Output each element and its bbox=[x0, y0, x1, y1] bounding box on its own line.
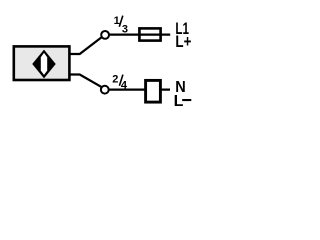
sensor box bbox=[14, 46, 70, 80]
terminal 2/4 bbox=[101, 86, 109, 94]
wire bbox=[110, 33, 171, 35]
svg-text:L+: L+ bbox=[175, 33, 191, 51]
svg-text:2: 2 bbox=[112, 73, 118, 85]
wire bbox=[109, 88, 170, 90]
sensor symbol diamond bbox=[33, 50, 55, 77]
terminal 1/3 bbox=[101, 31, 109, 39]
svg-text:4: 4 bbox=[121, 80, 128, 92]
fuse F1 bbox=[139, 28, 160, 40]
svg-text:1: 1 bbox=[114, 15, 120, 27]
sensor symbol lens bbox=[41, 53, 47, 75]
wire bbox=[70, 37, 102, 54]
load bbox=[146, 80, 161, 102]
svg-text:L: L bbox=[174, 93, 184, 110]
wire bbox=[70, 75, 102, 88]
svg-text:3: 3 bbox=[122, 23, 128, 35]
